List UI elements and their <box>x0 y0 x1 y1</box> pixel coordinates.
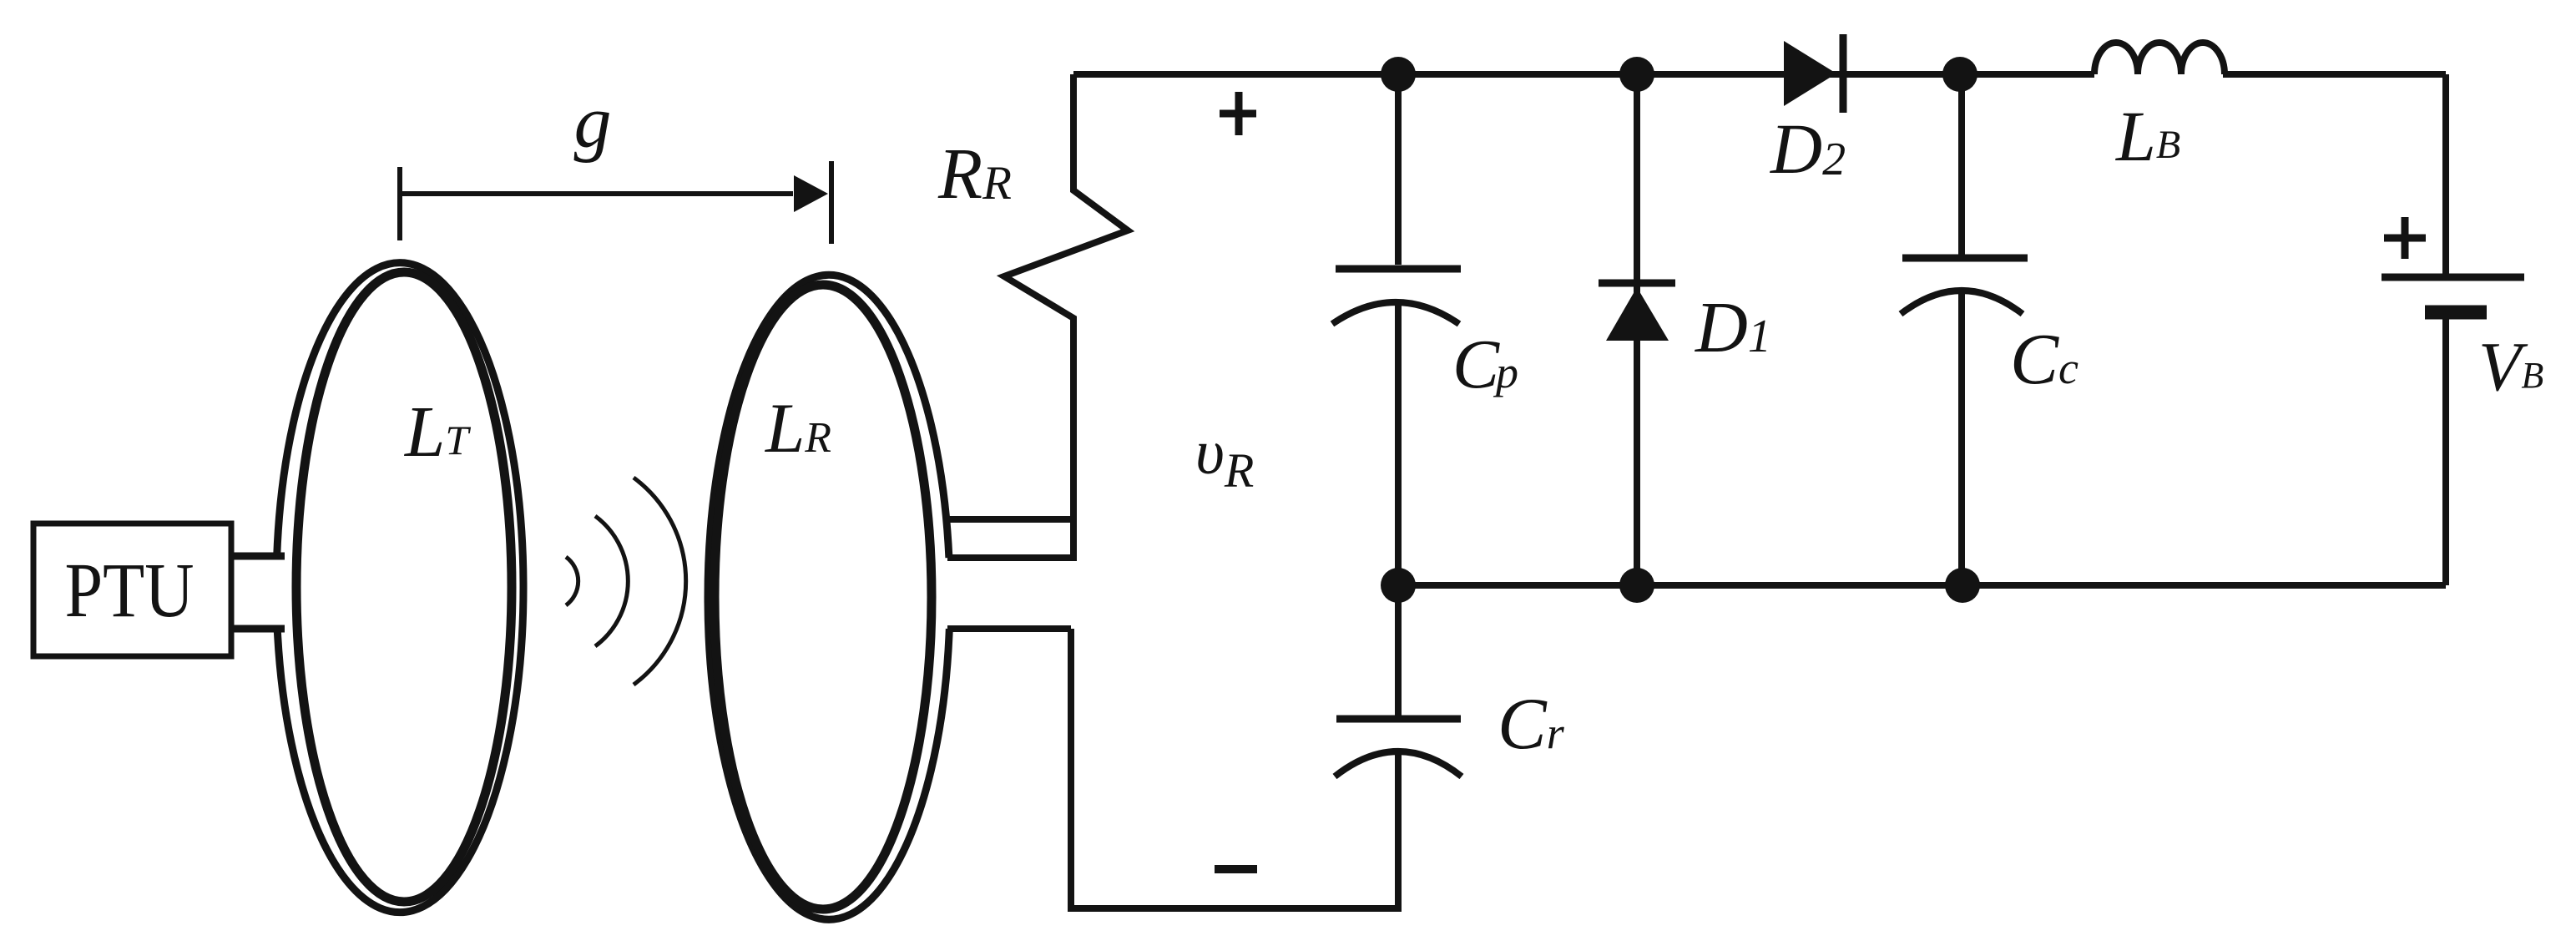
svg-text:PTU: PTU <box>65 548 194 634</box>
svg-text:g: g <box>574 81 612 164</box>
